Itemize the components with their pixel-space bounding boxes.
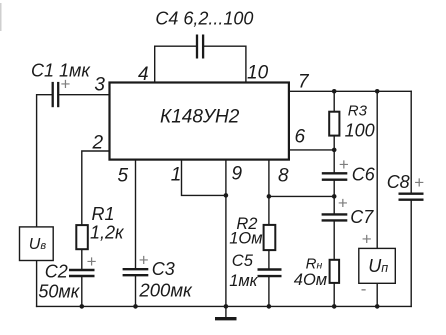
svg-text:R1: R1 [92, 204, 115, 224]
svg-text:1Ом: 1Ом [229, 229, 262, 247]
wire Rn bottom to rail [333, 284, 335, 307]
svg-text:100: 100 [345, 120, 375, 140]
junction node pin1 pin9 [224, 193, 229, 198]
wire R2 bottom to C5 top [268, 251, 270, 269]
svg-text:+: + [362, 230, 372, 249]
svg-text:50мк: 50мк [38, 282, 80, 302]
svg-text:+: + [87, 252, 97, 271]
svg-text:К148УН2: К148УН2 [160, 107, 240, 128]
svg-text:C6: C6 [352, 165, 376, 185]
wire pin1 to pin9 column [182, 160, 226, 196]
svg-text:C2: C2 [45, 262, 68, 282]
resistor R1 [76, 225, 88, 249]
junction node C6 C7 [332, 194, 337, 199]
wire pin8 down [268, 160, 270, 197]
svg-text:3: 3 [94, 74, 105, 95]
svg-text:+: + [61, 75, 71, 94]
wire pin3 to C1 [59, 94, 109, 96]
capacitor C8 [399, 194, 424, 200]
junction node top rail R3 [332, 89, 337, 94]
svg-text:5: 5 [118, 166, 129, 187]
amplifier IC U1 К148УН2 [110, 83, 289, 160]
svg-text:+: + [139, 251, 149, 270]
svg-text:C3: C3 [152, 259, 175, 279]
wire pin2 to R1 top [82, 151, 110, 224]
junction node pin8 [267, 194, 272, 199]
wire pin8 node to C6C7 node [269, 195, 334, 197]
junction node rail Up [375, 304, 380, 309]
junction node rail C3 [133, 304, 138, 309]
svg-text:10: 10 [247, 63, 269, 84]
junction node rail Rn [332, 304, 337, 309]
capacitor C6 [322, 173, 348, 179]
wire pin5 to C3 top [135, 160, 137, 270]
resistor R2 [264, 225, 276, 250]
svg-text:200мк: 200мк [138, 280, 193, 300]
svg-text:1: 1 [171, 164, 182, 185]
junction node rail pin9 [224, 304, 229, 309]
capacitor C1 [53, 82, 59, 107]
svg-text:1мк: 1мк [229, 272, 258, 290]
wire top rail to C8 top [410, 91, 412, 192]
wire pin8 node to R2 top [268, 196, 270, 224]
svg-text:4Ом: 4Ом [294, 271, 327, 289]
wire Up column top [376, 91, 378, 248]
svg-text:C5: C5 [232, 252, 254, 270]
wire C7 bottom to Rn top [333, 222, 335, 259]
wire C3 bottom to rail [135, 276, 137, 306]
wire R1 bottom to C2 top [81, 250, 83, 269]
capacitor C4 [197, 35, 203, 59]
resistor R3 [329, 112, 339, 136]
svg-text:4: 4 [138, 64, 149, 85]
wire Up bottom to rail [376, 283, 378, 306]
wire C2 bottom to rail [81, 277, 83, 306]
source Up box [359, 248, 396, 283]
junction node pin6 R3 [332, 148, 337, 153]
svg-text:1,2к: 1,2к [90, 223, 125, 243]
svg-text:C4 6,2...100: C4 6,2...100 [155, 8, 253, 28]
svg-text:2: 2 [92, 133, 104, 154]
wire pin9 down to rail [225, 160, 227, 307]
wire C1 left to input column [37, 95, 52, 227]
junction node rail C2 [80, 304, 85, 309]
wire C8 bottom to rail [410, 201, 412, 307]
capacitor C3 [123, 269, 149, 275]
wire R3 column top [333, 91, 335, 110]
svg-text:C8: C8 [387, 172, 410, 192]
svg-text:8: 8 [278, 166, 289, 187]
capacitor C7 [322, 214, 348, 220]
capacitor C2 [69, 270, 95, 276]
wire pin6 [289, 149, 334, 151]
wire C5 bottom to rail [268, 277, 270, 306]
wire C6 bottom to C7 top [333, 181, 335, 214]
wire R3 bottom to pin6 node to C6 [333, 137, 335, 174]
svg-text:6: 6 [295, 127, 306, 148]
svg-text:-: - [361, 280, 367, 299]
wire C4 to pin10 [204, 46, 246, 82]
wire pin7 top rail [289, 90, 411, 92]
svg-text:+: + [414, 173, 424, 192]
resistor Rn load [330, 260, 340, 283]
junction node rail C5 [267, 304, 272, 309]
wire pin4 to C4 [155, 46, 196, 82]
svg-text:C7: C7 [350, 207, 374, 227]
svg-text:9: 9 [232, 164, 243, 185]
wire Uv bottom to ground rail [36, 261, 38, 307]
svg-text:R3: R3 [348, 102, 368, 119]
junction node top rail Up [375, 89, 380, 94]
capacitor C5 [258, 270, 282, 277]
ground [215, 306, 237, 318]
source Uv box [20, 227, 54, 261]
wire ground rail [37, 305, 412, 307]
svg-text:+: + [339, 155, 349, 174]
svg-text:7: 7 [298, 72, 310, 93]
svg-text:+: + [338, 194, 348, 213]
